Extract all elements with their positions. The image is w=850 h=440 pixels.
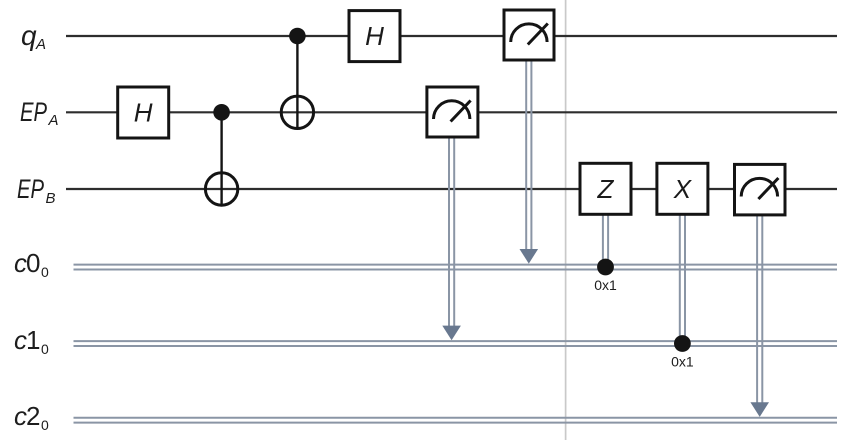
wire qA xyxy=(66,35,837,37)
measure M (qA) xyxy=(504,10,554,60)
label c2_0 xyxy=(14,401,49,433)
wire classical vertical M(qA)->c0 xyxy=(526,60,531,253)
svg-text:0x1: 0x1 xyxy=(671,354,694,370)
svg-text:0: 0 xyxy=(41,341,49,357)
svg-text:0x1: 0x1 xyxy=(594,277,617,293)
measure M (EPB) xyxy=(735,164,786,215)
CNOT target (EPB) xyxy=(205,173,237,205)
arrow to c0 xyxy=(520,249,539,264)
arrow to c1 xyxy=(442,326,461,341)
svg-text:1: 1 xyxy=(26,325,40,355)
label EPA xyxy=(20,97,59,129)
wire classical vertical Z->c0 xyxy=(603,214,608,267)
svg-text:0: 0 xyxy=(41,264,49,280)
classical control dot on c0 xyxy=(597,259,614,276)
svg-text:2: 2 xyxy=(26,401,40,431)
gate Z (EPB) xyxy=(580,163,631,214)
gate H (EPA) xyxy=(118,87,169,138)
svg-text:Z: Z xyxy=(597,174,615,204)
CNOT control dot (qA) xyxy=(289,28,306,45)
svg-text:EP: EP xyxy=(17,174,44,204)
svg-text:EP: EP xyxy=(20,97,47,127)
CNOT control dot (EPA) xyxy=(213,104,230,121)
svg-text:X: X xyxy=(673,174,693,204)
classical control dot on c1 xyxy=(674,335,691,352)
gate H (qA) xyxy=(349,11,400,62)
wire classical vertical M(EPA)->c1 xyxy=(449,137,454,330)
wire c1 (classical double line) xyxy=(74,341,838,346)
CNOT target (EPA) xyxy=(281,96,313,128)
svg-text:q: q xyxy=(21,20,37,51)
wire c2 (classical double line) xyxy=(74,418,838,423)
measure M (EPA) xyxy=(427,87,478,137)
svg-text:H: H xyxy=(134,98,153,128)
arrow to c2 xyxy=(750,402,769,417)
svg-text:H: H xyxy=(365,21,384,51)
svg-text:0: 0 xyxy=(26,248,40,278)
wire c0 (classical double line) xyxy=(74,265,838,270)
wire CNOT vertical (qA->EPA) xyxy=(296,36,298,129)
gate X (EPB) xyxy=(657,163,708,214)
svg-text:A: A xyxy=(35,36,46,53)
label qA xyxy=(21,20,46,53)
wire EPB xyxy=(66,188,837,190)
label c1_0 xyxy=(14,325,49,357)
label EPB xyxy=(17,174,56,207)
barrier xyxy=(565,0,567,440)
svg-text:A: A xyxy=(48,112,59,129)
svg-text:B: B xyxy=(46,190,56,207)
svg-text:0: 0 xyxy=(41,417,49,433)
wire classical vertical M(EPB)->c2 xyxy=(757,215,762,406)
wire CNOT vertical (EPA->EPB) xyxy=(220,112,222,205)
wire EPA xyxy=(66,111,837,113)
wire classical vertical X->c1 xyxy=(680,214,685,344)
label c0_0 xyxy=(14,248,49,280)
